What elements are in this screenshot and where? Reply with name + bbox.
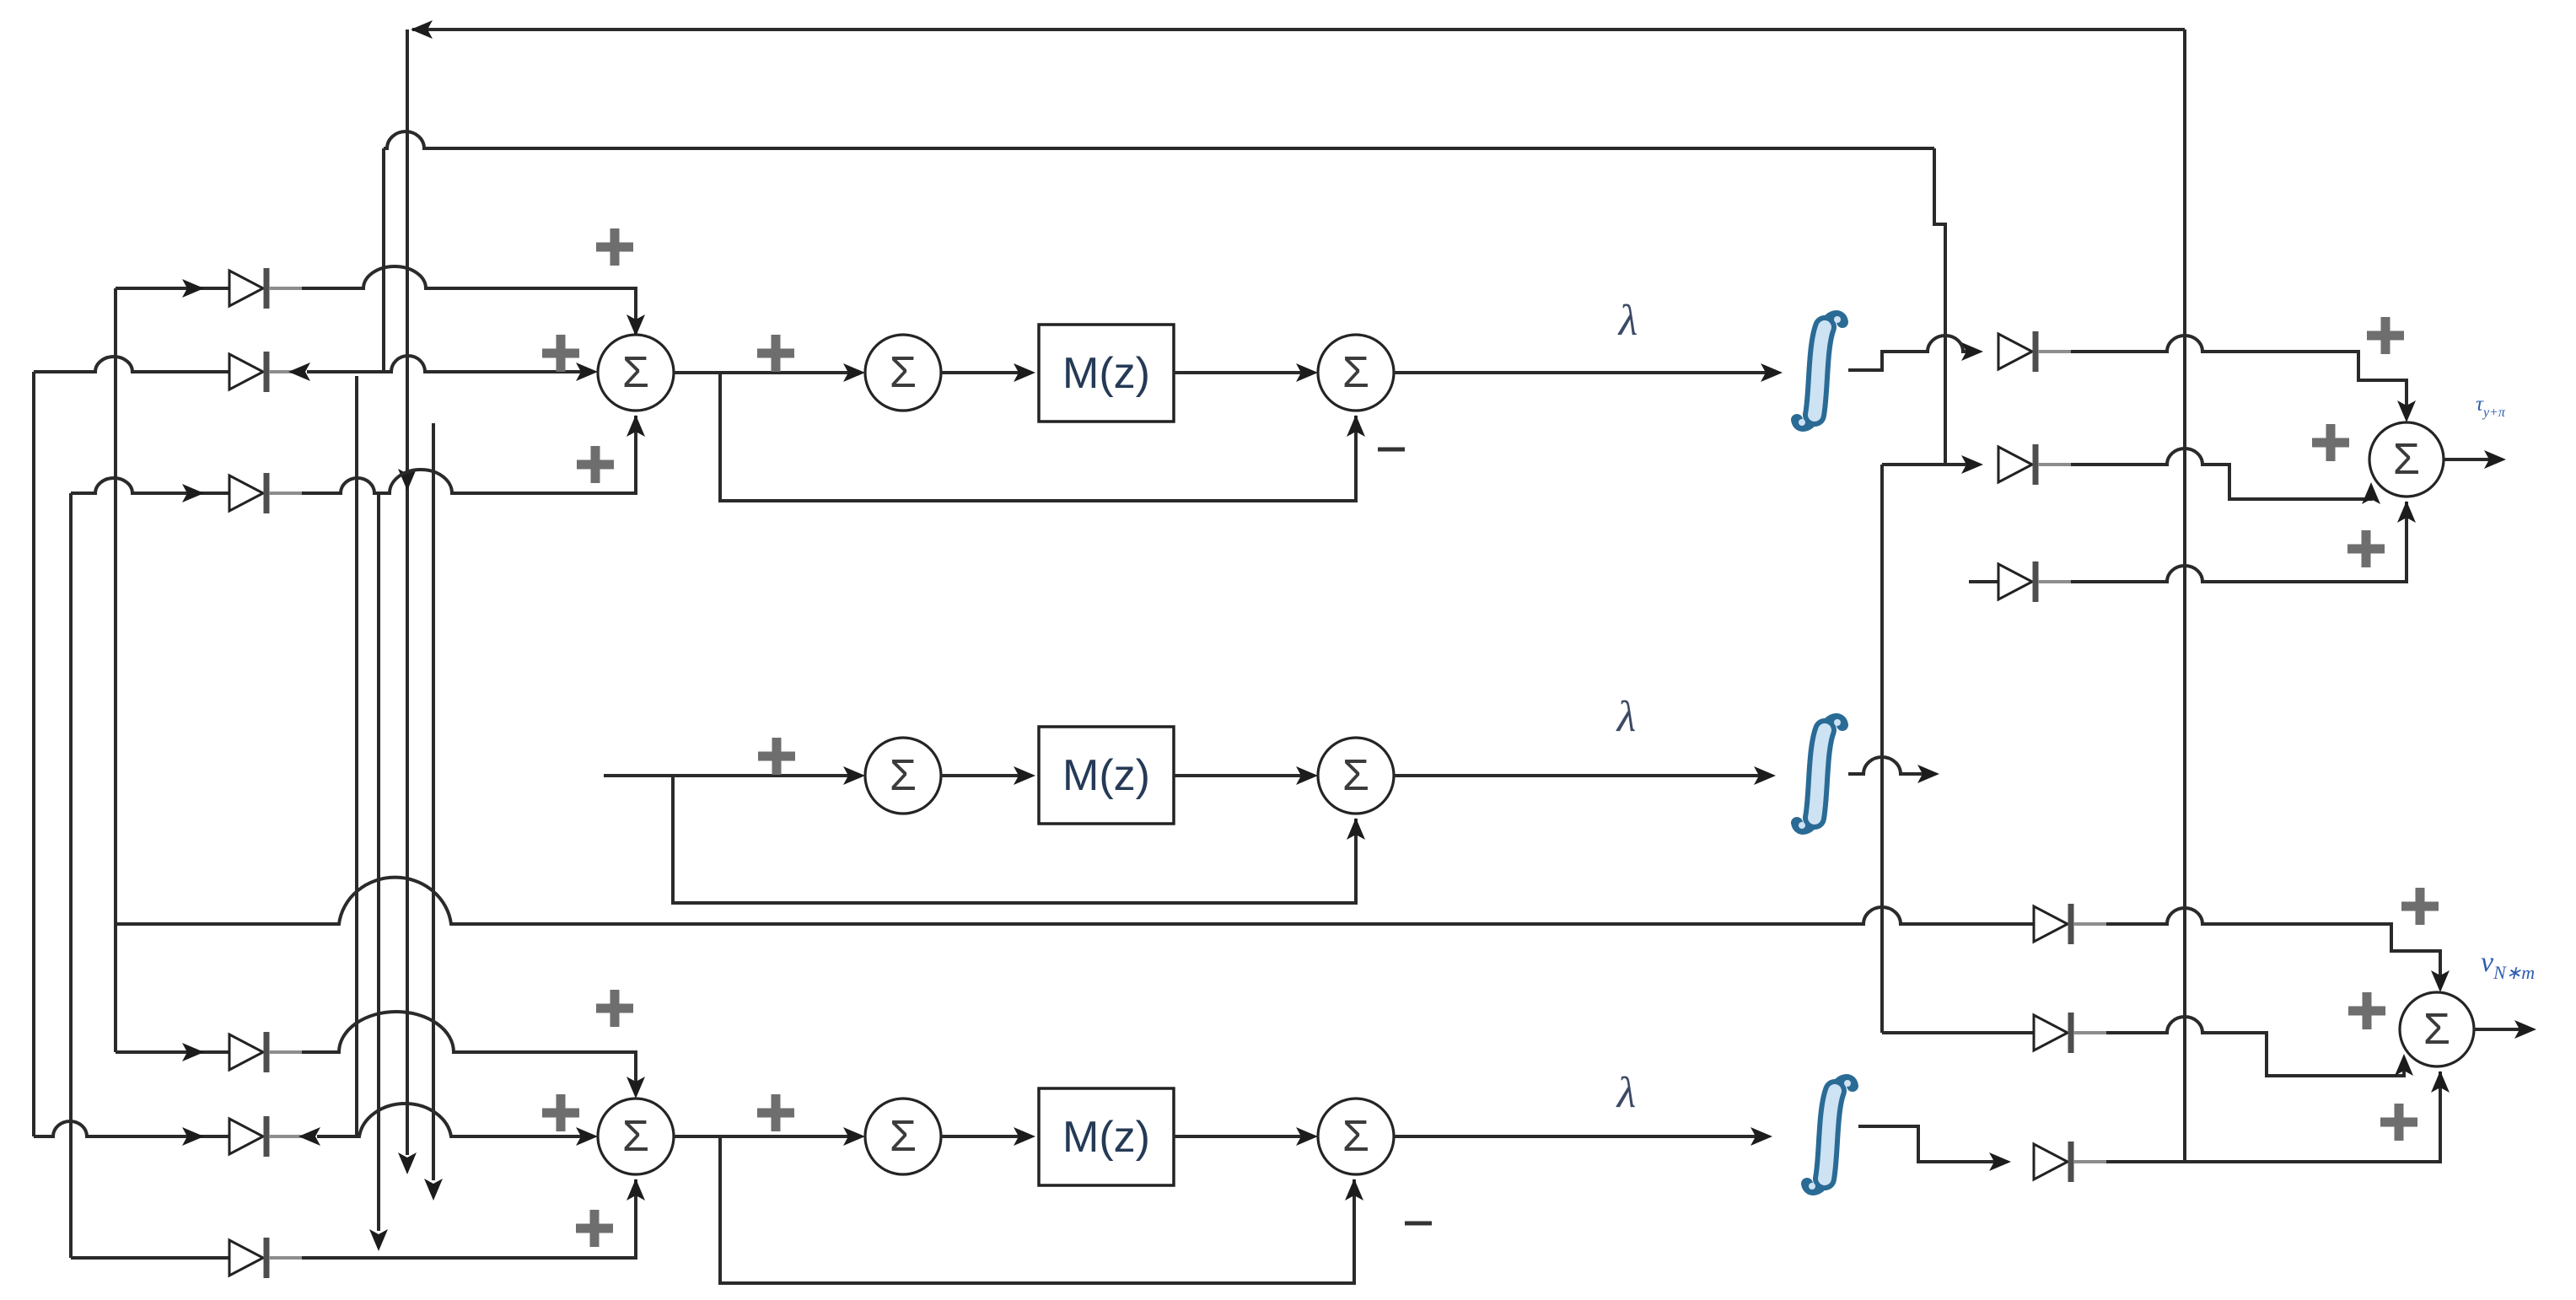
summer S5 — [1318, 738, 1394, 814]
diode D-R3 — [1998, 564, 2032, 599]
arrowhead into integrator 2 — [1754, 766, 1776, 785]
arrowhead row B2 pre-diode — [182, 1127, 204, 1146]
wire row B2 — [34, 1104, 593, 1136]
arrowhead SBR output — [2514, 1020, 2536, 1039]
wire vertical x=137 (A1-B1) — [114, 288, 117, 1052]
wire row A2 — [34, 356, 593, 372]
integrator 2 — [1815, 730, 1825, 818]
wire long row to SBR top — [116, 878, 2440, 987]
wire SB to S6 — [674, 1135, 860, 1138]
arrowhead row B2 post-diode left — [298, 1127, 320, 1146]
svg-text:M(z): M(z) — [1062, 349, 1150, 398]
wire vertical x=423 — [355, 376, 358, 1136]
wire row R3 to sum TR — [2071, 502, 2407, 582]
wire S7 to integrator 3 — [1394, 1135, 1767, 1138]
summer SB — [598, 1099, 674, 1174]
plus sign before S4 — [758, 738, 795, 775]
arrowhead into S5 bottom — [1347, 818, 1365, 840]
svg-text:λ: λ — [1616, 693, 1637, 741]
wire feedback L2 (y=176) — [384, 132, 1934, 148]
summer S2 — [865, 335, 941, 411]
arrowhead into SBR bottom — [2431, 1071, 2450, 1093]
arrowhead into M3 — [1014, 1127, 1035, 1146]
arrowhead into M1 — [1014, 363, 1035, 382]
diode D-A3 — [229, 475, 263, 511]
diode D-A1 — [229, 271, 263, 306]
block M(z) bottom — [1039, 1088, 1174, 1185]
svg-text:Σ: Σ — [1342, 1112, 1369, 1161]
plus sign STR top — [2367, 317, 2404, 354]
svg-text:Σ: Σ — [890, 348, 917, 397]
wire S3 to integrator (lambda line) — [1394, 371, 1777, 374]
plus sign SB left — [542, 1094, 579, 1131]
wire row B1 — [116, 1012, 636, 1093]
diode D-B2R — [2034, 1015, 2068, 1050]
wire row B2R — [1882, 1017, 2404, 1076]
arrowhead into S3 — [1296, 363, 1318, 382]
diode D-B1R — [2034, 906, 2068, 942]
arrowhead on x=483 at row A3 — [398, 469, 417, 491]
wire feedback L1 (y=35) — [412, 28, 2185, 31]
wire mid underloop — [673, 776, 1356, 903]
wire integ2 out — [1848, 757, 1934, 774]
arrowhead x=449 onto row B3 — [369, 1229, 388, 1251]
minus sign at S3 — [1378, 448, 1405, 452]
wire S5 to integrator 2 — [1394, 774, 1771, 777]
wire M3 to S7 — [1174, 1135, 1313, 1138]
svg-text:M(z): M(z) — [1062, 1113, 1150, 1162]
wire row A3 — [71, 416, 636, 493]
arrowhead into STR lower-left — [2362, 482, 2380, 504]
wire vertical x=483 with mid arrows — [406, 30, 409, 1155]
plus sign before S6 — [757, 1094, 794, 1131]
arrowhead row A1 pre-diode — [182, 279, 204, 298]
arrowhead into STR top — [2397, 400, 2416, 422]
svg-text:Σ: Σ — [1342, 751, 1369, 800]
diode D-B3R — [2034, 1144, 2068, 1179]
arrowhead into integrator 1 — [1761, 363, 1783, 382]
svg-text:Σ: Σ — [2393, 435, 2420, 484]
svg-text:λ: λ — [1616, 1069, 1637, 1117]
arrowhead into S3 bottom — [1347, 415, 1365, 437]
arrowhead row R1 pre-diode — [1961, 342, 1983, 361]
diode D-R1 — [1998, 334, 2032, 369]
wire row B3 — [71, 1179, 636, 1258]
svg-text:Σ: Σ — [2423, 1005, 2450, 1054]
wire top underloop — [720, 373, 1356, 501]
diode D-B3 — [229, 1240, 263, 1276]
svg-text:Σ: Σ — [622, 1112, 649, 1161]
arrowhead row A3 pre-diode — [182, 484, 204, 502]
arrowhead into SB left — [576, 1127, 598, 1146]
svg-text:Σ: Σ — [890, 1112, 917, 1161]
wire row R2 (y=551) — [1882, 463, 1978, 466]
arrowhead x=483 lower end — [398, 1152, 417, 1174]
svg-text:M(z): M(z) — [1062, 751, 1150, 800]
arrowhead into M2 — [1014, 766, 1035, 785]
plus sign SB top — [596, 990, 633, 1027]
plus sign SBR bottom — [2380, 1104, 2417, 1141]
wire vertical x=84 (A3-B3) — [69, 493, 73, 1258]
wire integ3 out jog — [1858, 1126, 2006, 1162]
wire row R2 to sum TR — [2071, 449, 2371, 499]
wire vertical x=455 — [382, 148, 385, 372]
wire vertical x=449 — [377, 493, 380, 1231]
wire row R1 to sum TR — [2071, 336, 2407, 417]
plus sign SBR left — [2348, 992, 2385, 1029]
arrowhead into SB top — [627, 1077, 645, 1099]
summer S7 — [1318, 1099, 1394, 1174]
arrowhead STR output — [2484, 450, 2506, 469]
arrowhead into S2 — [843, 363, 865, 382]
arrowhead into SB bottom — [627, 1179, 645, 1201]
svg-text:λ: λ — [1617, 297, 1638, 345]
wire row A1 — [116, 266, 636, 341]
plus sign S1 bottom — [577, 446, 614, 483]
summer SBR — [2400, 992, 2474, 1066]
arrowhead row B1 pre-diode — [182, 1043, 204, 1061]
wire vertical x=514 — [432, 423, 435, 1180]
diode D-R2 — [1998, 447, 2032, 482]
arrowhead into S5 — [1296, 766, 1318, 785]
wire L2 right drop x=2294 — [1934, 148, 1945, 465]
arrowhead row A2 post-diode left — [288, 363, 310, 381]
arrowhead into SBR top — [2431, 970, 2450, 992]
wire vertical x=40 (A2-B2) — [32, 372, 35, 1136]
arrowhead into STR bottom — [2397, 501, 2416, 523]
arrowhead into S7 bottom — [1345, 1179, 1363, 1201]
block M(z) top — [1039, 325, 1174, 422]
svg-text:Σ: Σ — [622, 348, 649, 397]
minus sign at S7 — [1405, 1222, 1432, 1226]
plus sign S1 left — [542, 335, 579, 372]
arrowhead into S4 — [843, 766, 865, 785]
wire SBR output — [2474, 1028, 2531, 1031]
wire S1 to S2 — [674, 371, 860, 374]
arrowhead into S1 bottom — [627, 415, 645, 437]
diode D-B1 — [229, 1034, 263, 1070]
integrator 3 — [1825, 1091, 1835, 1179]
summer STR — [2369, 422, 2444, 497]
wire row B3R to SBR bottom — [2106, 1072, 2440, 1162]
summer S6 — [865, 1099, 941, 1174]
wire integ1 out jog — [1848, 336, 1978, 370]
plus sign SB bottom — [576, 1210, 613, 1247]
arrowhead row B3R pre-diode — [1989, 1152, 2011, 1171]
arrowhead integ2 out end — [1917, 765, 1939, 783]
summer S3 — [1318, 335, 1394, 411]
integrator 1 — [1815, 327, 1825, 415]
summer S1 — [598, 335, 674, 411]
svg-text:Σ: Σ — [890, 751, 917, 800]
wire bottom underloop — [720, 1136, 1354, 1283]
diode D-A2 — [229, 354, 263, 389]
wire S6 to M3 — [941, 1135, 1030, 1138]
block M(z) middle — [1039, 727, 1174, 824]
arrowhead into S1 left — [576, 363, 598, 381]
wire vertical x=2591 — [2183, 30, 2186, 1162]
arrowhead into S7 — [1296, 1127, 1318, 1146]
arrowhead x=514 lower end — [424, 1179, 443, 1201]
summer S4 — [865, 738, 941, 814]
wire row R3 (y=690) — [1969, 580, 1998, 583]
arrowhead into SBR lower-left — [2395, 1054, 2413, 1076]
arrowhead into integrator 3 — [1750, 1127, 1772, 1146]
arrowhead into S1 top — [627, 314, 645, 336]
plus sign SBR top — [2401, 888, 2439, 925]
arrowhead row R2 pre-diode — [1961, 455, 1983, 474]
plus sign STR left — [2312, 424, 2349, 461]
arrowhead L1 left end — [411, 20, 433, 39]
plus sign S1 top — [596, 228, 633, 266]
diode D-B2 — [229, 1119, 263, 1154]
wire vertical x=2232 — [1880, 465, 1884, 1033]
wire S4 to M2 — [941, 774, 1030, 777]
svg-text:Σ: Σ — [1342, 348, 1369, 397]
plus sign STR bottom — [2347, 530, 2385, 567]
wire mid input — [604, 774, 860, 777]
wire S2 to M1 — [941, 371, 1030, 374]
wire M1 to S3 — [1174, 371, 1313, 374]
wire STR output — [2444, 458, 2501, 461]
arrowhead into S6 — [843, 1127, 865, 1146]
plus sign before S2 — [757, 335, 794, 372]
wire M2 to S5 — [1174, 774, 1313, 777]
